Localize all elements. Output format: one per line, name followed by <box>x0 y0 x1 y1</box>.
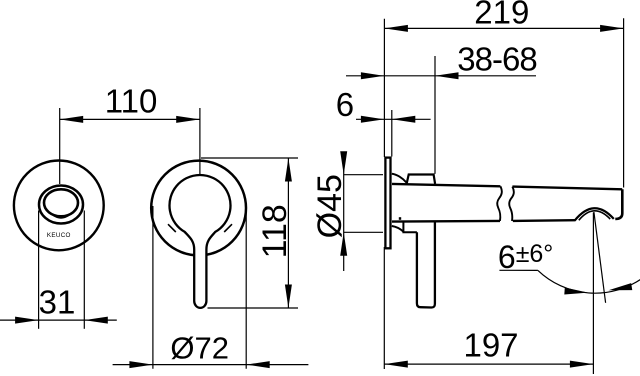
arrow 118 top <box>285 158 292 182</box>
angle ray 6deg <box>594 212 606 303</box>
centerline lever handle <box>199 108 201 184</box>
lever handle outer circle <box>151 161 246 256</box>
extension tick d45 bottom <box>344 231 383 233</box>
extension line 31 right <box>83 211 85 329</box>
extension line wall lower <box>383 247 385 369</box>
arrow 110 left <box>60 116 83 123</box>
arrow 6 right <box>392 116 416 123</box>
extension line 118 top <box>201 157 298 159</box>
tick mark right <box>224 224 232 232</box>
lever handle ring hole and stem <box>169 175 230 308</box>
mounting nut <box>407 175 436 184</box>
wall flange plate <box>385 158 390 249</box>
extension line 31 left <box>38 211 40 329</box>
angle arrow left <box>564 287 588 296</box>
outlet vertical reference line <box>592 213 594 375</box>
arrow 31 right <box>84 317 108 324</box>
svg-text:219: 219 <box>474 0 529 31</box>
arrow 118 bottom <box>285 285 292 309</box>
sleeve top curve <box>392 174 407 183</box>
spout tube bottom edge (tip side) <box>513 219 576 222</box>
svg-text:110: 110 <box>105 83 158 120</box>
extension line d72 right <box>245 206 247 369</box>
break line right <box>509 187 514 221</box>
arrow 197 left <box>384 361 408 368</box>
angle leader line <box>499 269 538 271</box>
break line left <box>497 186 502 221</box>
svg-text:KEUCO: KEUCO <box>47 232 71 239</box>
tick mark left <box>168 224 176 232</box>
escutcheon plate circle <box>14 161 104 251</box>
spout tube top edge (wall side) <box>392 184 500 186</box>
svg-text:197: 197 <box>463 326 518 363</box>
extension line wall upper <box>383 19 385 157</box>
sleeve bottom curve <box>392 226 404 232</box>
extension line nut face <box>434 56 436 174</box>
lever side view <box>417 222 435 308</box>
angle arrow right <box>608 283 632 294</box>
arrow 219 left <box>384 25 408 32</box>
svg-text:38-68: 38-68 <box>457 41 536 78</box>
extension tick d45 top <box>344 174 383 176</box>
dimension line 31 <box>0 319 117 321</box>
arrow d72 left <box>129 361 153 368</box>
set screw dot <box>399 217 401 220</box>
svg-text:6±6°: 6±6° <box>498 239 553 275</box>
dimension line 118 <box>287 158 289 308</box>
extension line d72 left <box>152 206 154 369</box>
svg-text:Ø72: Ø72 <box>170 331 229 366</box>
arrow 38-68 left <box>361 72 385 79</box>
arrow d45 top <box>340 151 347 175</box>
dimension line 197 <box>384 363 593 365</box>
spout tube bottom edge (wall side) <box>392 220 500 223</box>
outlet arc outer <box>575 208 614 220</box>
dimension line d72 <box>113 364 309 366</box>
arrow 6 left <box>361 116 385 123</box>
svg-text:31: 31 <box>39 283 76 320</box>
extension line flange right <box>391 110 393 157</box>
arrow 110 right <box>176 116 200 123</box>
arrow 197 right <box>570 361 594 368</box>
arrow d72 right <box>246 361 270 368</box>
arrow 38-68 right <box>435 72 459 79</box>
angle arc <box>538 270 640 293</box>
dimension line 6 <box>356 118 431 120</box>
knob bottom shading arc <box>45 207 77 218</box>
arrow 31 left <box>15 317 39 324</box>
spout tube top edge (tip side) <box>512 187 622 190</box>
outlet arc inner <box>579 211 610 220</box>
extension line 118 bottom <box>208 307 299 309</box>
arrow d45 bottom <box>340 232 347 256</box>
spout tip end <box>615 189 622 219</box>
svg-text:Ø45: Ø45 <box>311 174 349 238</box>
dimension line d45 vertical <box>343 152 345 271</box>
svg-text:118: 118 <box>256 204 294 258</box>
sleeve bottom step <box>403 222 417 233</box>
knob inner ellipse <box>44 189 78 216</box>
extension line spout tip <box>623 18 625 187</box>
centerline left escutcheon <box>59 108 61 184</box>
dimension line 38-68 <box>346 75 536 77</box>
dimension line 110 <box>60 118 200 120</box>
svg-text:6: 6 <box>336 86 354 123</box>
arrow 219 right <box>600 25 624 32</box>
dimension line 219 <box>384 27 623 29</box>
knob outer ellipse <box>39 186 83 224</box>
